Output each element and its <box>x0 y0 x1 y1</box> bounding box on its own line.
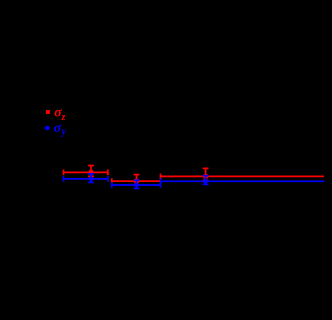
legend marker sigma_z <box>46 110 50 114</box>
legend marker sigma_y <box>45 126 50 131</box>
svg-text:σ: σ <box>54 121 62 136</box>
blue point 3 y-errorbar <box>203 176 209 185</box>
blue point 2 y-errorbar <box>134 180 140 188</box>
red marker 1 <box>89 170 93 174</box>
svg-text:y: y <box>61 127 67 138</box>
red point 2 y-errorbar <box>134 175 140 185</box>
blue point 3 x-errorbar <box>161 178 325 184</box>
blue point 1 y-errorbar <box>88 174 94 183</box>
blue point 2 x-errorbar <box>112 182 161 188</box>
red marker 3 <box>203 174 207 178</box>
blue point 1 x-errorbar <box>64 176 108 182</box>
red marker 2 <box>134 179 138 183</box>
red point 3 y-errorbar <box>203 168 209 180</box>
series sigma_z (red) <box>64 166 325 186</box>
blue marker 3 <box>203 179 208 184</box>
red point 3 x-errorbar <box>161 174 325 180</box>
series sigma_y (blue) <box>64 174 325 189</box>
red point 2 x-errorbar <box>112 178 161 184</box>
blue marker 1 <box>89 177 94 182</box>
red point 1 y-errorbar <box>88 166 94 177</box>
svg-text:z: z <box>61 112 66 123</box>
blue marker 2 <box>134 183 139 188</box>
legend marker sigma_y tail <box>44 127 47 129</box>
red point 1 x-errorbar <box>64 170 108 176</box>
